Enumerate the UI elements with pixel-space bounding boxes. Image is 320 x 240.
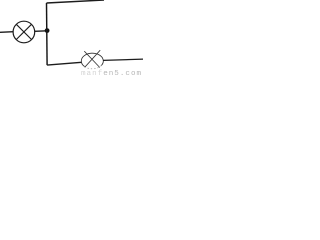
wire top branch	[47, 0, 105, 3]
wire lamp L1 to junction	[35, 30, 48, 33]
lamp L1 X stroke 1	[16, 24, 31, 39]
lamp L2 ellipse main arc	[81, 53, 103, 66]
wire bottom branch to lamp L2	[47, 62, 81, 65]
svg-text:en5.com: en5.com	[103, 70, 142, 77]
lamp L1 circle	[13, 21, 35, 43]
svg-text:manf: manf	[81, 70, 103, 77]
wire vertical branch	[46, 3, 49, 65]
lamp L2 X stroke 1	[84, 51, 100, 67]
wire right lead from lamp L2	[103, 59, 143, 60]
lamp L1 X stroke 2	[16, 24, 31, 39]
lamp L2 ellipse bottom arc (faint dotted)	[85, 66, 102, 69]
wire left lead into lamp L1	[0, 31, 14, 34]
lamp L2 X stroke 2	[85, 50, 101, 67]
junction node dot	[45, 28, 50, 33]
